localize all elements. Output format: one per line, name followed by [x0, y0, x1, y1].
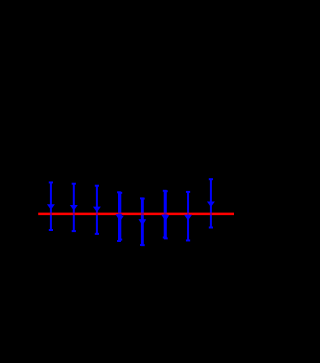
marker 2: [71, 205, 77, 209]
marker 5b: [140, 220, 145, 224]
errorbar 1: [49, 182, 53, 230]
marker 1: [48, 205, 54, 209]
marker 4a: [116, 215, 121, 219]
errorbar 3: [95, 186, 99, 234]
errorbar 6b: [164, 191, 168, 238]
errorbar 4a: [117, 192, 121, 241]
marker 4b: [118, 216, 123, 220]
marker 5a: [139, 220, 144, 224]
errorbar 5b: [141, 199, 145, 246]
errorbar 8: [209, 179, 213, 227]
errorbar 4b: [118, 193, 122, 240]
errorbar 5a: [140, 198, 144, 245]
marker 6a: [162, 215, 167, 219]
marker 8: [208, 202, 214, 206]
red baseline: [38, 213, 234, 216]
marker 7: [185, 215, 191, 219]
marker 6b: [163, 216, 168, 220]
errorbar 7: [186, 192, 190, 241]
errorbar 6a: [163, 191, 167, 238]
marker 3: [94, 207, 100, 211]
crossing blends: [51, 213, 211, 215]
errorbar 2: [72, 184, 76, 231]
